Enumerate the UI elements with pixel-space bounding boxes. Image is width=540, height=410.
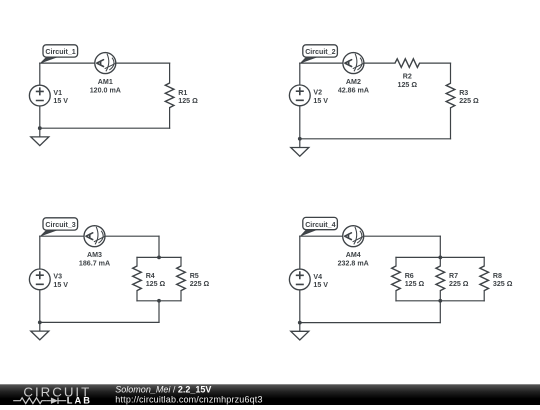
svg-text:186.7 mA: 186.7 mA — [79, 259, 110, 267]
svg-text:V2: V2 — [313, 89, 322, 97]
wire C2 top right segment — [420, 62, 451, 64]
ground — [31, 322, 49, 339]
node C4 bottom bar junction junction dot — [438, 299, 442, 303]
resistor R6 — [392, 266, 401, 291]
voltage source V2 — [289, 85, 310, 106]
label V1 value — [53, 89, 68, 105]
label R6 value — [405, 272, 425, 288]
label R2 value — [398, 73, 418, 89]
label V4 value — [313, 273, 328, 289]
svg-text:Circuit_4: Circuit_4 — [305, 221, 335, 229]
wire C4 R7 lower lead — [439, 291, 441, 301]
svg-text:AM1: AM1 — [98, 78, 113, 86]
svg-text:V1: V1 — [53, 89, 62, 97]
resistor R4 — [133, 266, 142, 291]
label R4 value — [146, 272, 166, 288]
node C3 top bar junction junction dot — [157, 256, 161, 260]
resistor R7 — [436, 266, 445, 291]
node C4 top bar junction junction dot — [438, 256, 442, 260]
svg-text:15 V: 15 V — [53, 281, 68, 289]
resistor R1 — [165, 83, 174, 108]
svg-text:R8: R8 — [493, 272, 502, 280]
wire C2 right lower — [450, 108, 452, 139]
svg-text:R7: R7 — [449, 272, 458, 280]
svg-text:R2: R2 — [403, 73, 412, 81]
svg-text:LAB: LAB — [67, 396, 90, 405]
svg-text:15 V: 15 V — [313, 97, 328, 105]
svg-text:http://circuitlab.com/cnzmhprz: http://circuitlab.com/cnzmhprzu6qt3 — [115, 394, 262, 404]
svg-text:Solomon_Mei / 2.2_15V: Solomon_Mei / 2.2_15V — [115, 384, 211, 394]
wire C4 feed to bottom — [439, 301, 441, 323]
svg-text:225 Ω: 225 Ω — [459, 97, 479, 105]
svg-text:V4: V4 — [313, 273, 322, 281]
svg-text:125 Ω: 125 Ω — [398, 81, 418, 89]
wire C1 right lower — [169, 108, 171, 129]
svg-text:Circuit_2: Circuit_2 — [305, 48, 335, 56]
svg-text:R6: R6 — [405, 272, 414, 280]
svg-text:AM3: AM3 — [87, 251, 102, 259]
label Circuit_3 bubble — [39, 218, 77, 237]
label AM1 value — [90, 78, 121, 94]
ground — [291, 323, 309, 340]
wire C4 R7 upper lead — [439, 257, 441, 266]
wire C4 R8 upper lead — [483, 257, 485, 266]
wire C4 left upper — [299, 236, 301, 269]
voltage source V1 — [29, 85, 50, 106]
svg-text:R1: R1 — [178, 89, 187, 97]
node C3 bottom bar junction junction dot — [157, 299, 161, 303]
svg-text:Circuit_3: Circuit_3 — [45, 221, 75, 229]
wire C4 parallel bottom bar — [396, 300, 484, 302]
node C3 ground node junction dot — [38, 321, 42, 325]
label V2 value — [313, 89, 328, 105]
wire C1 bottom — [40, 127, 170, 129]
svg-text:15 V: 15 V — [313, 281, 328, 289]
label R8 value — [493, 272, 513, 288]
label R5 value — [190, 272, 210, 288]
label AM2 value — [338, 78, 369, 94]
wire C4 bottom — [300, 322, 441, 324]
ground — [31, 128, 49, 145]
svg-text:AM2: AM2 — [346, 78, 361, 86]
wire C3 bottom — [40, 321, 159, 323]
wire C3 left lower — [39, 290, 41, 323]
wire C3 parallel bottom bar — [137, 300, 181, 302]
wire C4 R6 upper lead — [395, 257, 397, 266]
svg-text:V3: V3 — [53, 273, 62, 281]
node C2 ground node junction dot — [298, 137, 302, 141]
label R1 value — [178, 89, 198, 105]
wire C1 left upper — [39, 63, 41, 85]
wire C4 R6 lower lead — [395, 291, 397, 301]
voltage source V4 — [289, 269, 310, 290]
ammeter AM3 — [84, 226, 105, 247]
wire C1 top — [40, 62, 170, 64]
wire C3 feed down — [158, 236, 160, 257]
resistor R8 — [480, 266, 489, 291]
svg-text:225 Ω: 225 Ω — [190, 280, 210, 288]
wire C3 top — [40, 235, 159, 237]
svg-text:R3: R3 — [459, 89, 468, 97]
label AM4 value — [338, 251, 369, 267]
label Circuit_4 bubble — [299, 217, 337, 236]
node C1 ground node junction dot — [38, 126, 42, 130]
wire C3 R4 lower lead — [136, 291, 138, 301]
label AM3 value — [79, 251, 110, 267]
ammeter AM2 — [343, 53, 364, 74]
svg-text:125 Ω: 125 Ω — [178, 97, 198, 105]
ammeter AM4 — [343, 226, 364, 247]
wire C2 left lower — [299, 106, 301, 139]
svg-text:125 Ω: 125 Ω — [405, 280, 425, 288]
wire C4 R8 lower lead — [483, 291, 485, 301]
voltage source V3 — [29, 269, 50, 290]
resistor R3 — [446, 83, 455, 108]
wire C3 R5 upper lead — [180, 257, 182, 266]
label V3 value — [53, 273, 68, 289]
svg-text:R5: R5 — [190, 272, 199, 280]
wire C2 right upper — [450, 63, 452, 83]
svg-text:42.86 mA: 42.86 mA — [338, 86, 369, 94]
svg-text:15 V: 15 V — [53, 97, 68, 105]
svg-text:325 Ω: 325 Ω — [493, 280, 513, 288]
node C4 ground node junction dot — [298, 321, 302, 325]
wire C3 left upper — [39, 236, 41, 269]
ammeter AM1 — [95, 53, 116, 74]
wire C4 parallel top bar — [396, 256, 484, 258]
label R7 value — [449, 272, 469, 288]
label R3 value — [459, 89, 479, 105]
svg-text:R4: R4 — [146, 272, 155, 280]
wire C4 top — [300, 235, 441, 237]
wire C3 feed to bottom — [158, 301, 160, 323]
wire C3 parallel top bar — [137, 256, 181, 258]
wire C3 R5 lower lead — [180, 291, 182, 301]
wire C2 left upper — [299, 63, 301, 85]
wire C1 right upper — [169, 63, 171, 83]
svg-text:120.0 mA: 120.0 mA — [90, 86, 121, 94]
wire C3 R4 upper lead — [136, 257, 138, 266]
CircuitLab logo resistor-diode drawing — [13, 398, 66, 404]
label Circuit_2 bubble — [299, 45, 337, 64]
wire C4 left lower — [299, 290, 301, 323]
svg-text:225 Ω: 225 Ω — [449, 280, 469, 288]
wire C2 top left segment — [300, 62, 395, 64]
wire C4 feed down — [439, 236, 441, 257]
svg-text:125 Ω: 125 Ω — [146, 280, 166, 288]
svg-text:AM4: AM4 — [346, 251, 361, 259]
wire C1 left lower — [39, 106, 41, 128]
wire C2 bottom — [300, 138, 451, 140]
svg-text:Circuit_1: Circuit_1 — [45, 48, 75, 56]
svg-text:232.8 mA: 232.8 mA — [338, 259, 369, 267]
label Circuit_1 bubble — [39, 45, 77, 64]
ground — [291, 139, 309, 156]
resistor R2 — [395, 59, 420, 68]
resistor R5 — [177, 266, 186, 291]
